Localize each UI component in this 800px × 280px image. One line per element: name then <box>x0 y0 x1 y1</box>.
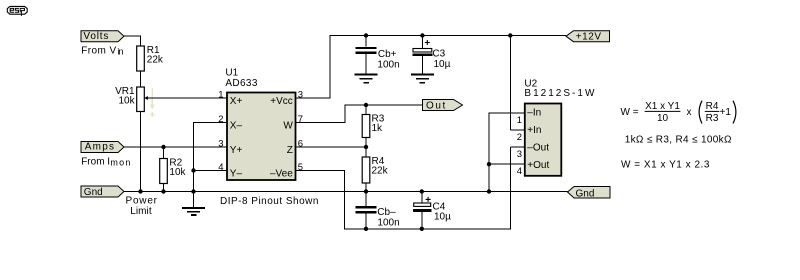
wire U2 -Out stub <box>510 146 525 148</box>
resistor R2 10k <box>160 147 187 192</box>
svg-text:3: 3 <box>218 139 223 150</box>
svg-text:6: 6 <box>298 139 303 150</box>
svg-text:4: 4 <box>218 162 223 173</box>
VR1 adjust ghost arrow <box>150 88 155 117</box>
tag Gnd left <box>81 186 124 198</box>
svg-text:C3: C3 <box>432 49 445 60</box>
svg-text:B1212S-1W: B1212S-1W <box>524 88 595 99</box>
wire +12V rail to U2 +In <box>510 36 525 131</box>
svg-text:Volts: Volts <box>83 31 108 42</box>
ground symbol C3 <box>411 75 434 83</box>
svg-text:–Out: –Out <box>527 143 549 154</box>
svg-text:5: 5 <box>298 162 303 173</box>
svg-text:Limit: Limit <box>130 206 152 217</box>
resistor R4 22k <box>362 147 388 192</box>
svg-text:DIP-8 Pinout Shown: DIP-8 Pinout Shown <box>220 196 318 207</box>
U2 pin numbers <box>517 115 522 177</box>
svg-text:+1: +1 <box>720 107 732 118</box>
label From Imon <box>81 156 130 167</box>
converter U2 B1212S-1W body <box>524 79 595 176</box>
junction gnd row at ground symbol <box>191 189 195 193</box>
svg-text:4: 4 <box>517 166 522 177</box>
wire +Vcc pin to +12V rail <box>296 36 567 99</box>
svg-text:Amps: Amps <box>85 142 114 153</box>
trimpot VR1 10k <box>115 86 148 112</box>
label Power Limit <box>126 196 158 217</box>
junction R2 bottom <box>161 189 165 193</box>
svg-text:+Out: +Out <box>527 160 549 171</box>
junction R2 top <box>161 145 165 149</box>
junction Z R3 R4 <box>364 145 368 149</box>
ESP logo <box>7 6 27 16</box>
svg-text:+Vcc: +Vcc <box>270 96 293 107</box>
svg-text:22k: 22k <box>147 55 164 66</box>
svg-text:+In: +In <box>527 125 541 136</box>
wire U2 -In and +Out to gnd <box>489 113 525 192</box>
junction U2 +Out <box>487 162 491 166</box>
svg-text:10µ: 10µ <box>434 59 451 70</box>
svg-text:AD633: AD633 <box>225 78 257 89</box>
resistor R3 1k <box>362 105 385 147</box>
svg-text:10k: 10k <box>169 167 186 178</box>
svg-text:–Vee: –Vee <box>270 168 293 179</box>
svg-text:3: 3 <box>517 149 522 160</box>
svg-text:x: x <box>687 107 692 118</box>
svg-text:From V: From V <box>81 45 116 56</box>
svg-text:R4: R4 <box>706 101 719 112</box>
svg-text:Y–: Y– <box>230 168 243 179</box>
junction gnd row at R4 <box>364 189 368 193</box>
U1 pin numbers <box>218 90 303 174</box>
junction gnd row at U2 <box>487 189 491 193</box>
junction rail at U2 feed <box>508 33 512 37</box>
tag Gnd right <box>568 187 611 200</box>
svg-text:7: 7 <box>298 114 303 125</box>
tag +12V <box>566 31 610 43</box>
svg-text:in: in <box>117 47 123 57</box>
wire R1 to VR1 <box>140 71 142 87</box>
tag Out <box>423 100 463 112</box>
wire gnd row <box>124 191 568 193</box>
svg-text:X1 x Y1: X1 x Y1 <box>645 101 680 112</box>
capacitor C3 10u polarized <box>412 36 450 75</box>
wire VR1 bottom to gnd row <box>140 112 142 192</box>
svg-text:1: 1 <box>517 115 522 126</box>
svg-text:100n: 100n <box>377 217 399 228</box>
wire U1 X- and Y- to gnd <box>194 123 228 192</box>
svg-text:22k: 22k <box>372 166 389 177</box>
svg-text:W: W <box>283 120 293 131</box>
svg-text:1kΩ ≤ R3, R4 ≤ 100kΩ: 1kΩ ≤ R3, R4 ≤ 100kΩ <box>625 134 732 145</box>
resistor R1 22k <box>137 45 164 71</box>
junction bottom rail at C4 <box>420 227 424 231</box>
label From Vin <box>81 45 123 56</box>
junction gnd row at VR1 line <box>138 189 142 193</box>
junction gnd row at C4 <box>420 189 424 193</box>
svg-text:W =: W = <box>621 107 639 118</box>
equation W formula <box>621 101 736 124</box>
svg-text:Z: Z <box>287 145 293 156</box>
svg-text:1k: 1k <box>372 123 384 134</box>
svg-text:X+: X+ <box>230 96 243 107</box>
op-amp U1 AD633 body <box>225 68 295 180</box>
svg-text:10k: 10k <box>118 96 135 107</box>
wire Volts tag to R1 <box>124 36 141 46</box>
ground symbol main <box>182 192 205 216</box>
svg-text:R3: R3 <box>706 113 719 124</box>
svg-text:Gnd: Gnd <box>576 189 595 200</box>
svg-text:X–: X– <box>230 120 243 131</box>
svg-text:Gnd: Gnd <box>84 187 103 198</box>
capacitor Cb+ 100n <box>356 36 400 75</box>
svg-text:Y+: Y+ <box>230 145 243 156</box>
svg-text:2: 2 <box>517 132 522 143</box>
junction rail at C3 <box>420 33 424 37</box>
svg-text:3: 3 <box>298 90 303 101</box>
wire VR1 wiper to U1 X+ pin 1 <box>148 97 228 99</box>
tag Volts <box>81 31 124 42</box>
junction rail at Cb+ <box>364 33 368 37</box>
ground symbol Cb+ <box>355 75 378 83</box>
svg-text:1: 1 <box>218 90 223 101</box>
capacitor Cb- 100n <box>356 192 400 229</box>
wire Z pin to R3/R4 <box>296 146 367 148</box>
junction W line at R3 <box>364 103 368 107</box>
svg-text:Cb+: Cb+ <box>378 49 397 60</box>
svg-text:2: 2 <box>218 114 223 125</box>
wire -Vee pin to bottom rail <box>296 147 511 229</box>
wire Amps to U1 Y+ pin 3 <box>124 146 227 148</box>
svg-text:–In: –In <box>527 108 541 119</box>
svg-text:C4: C4 <box>433 201 446 212</box>
U1 pin labels <box>230 96 294 180</box>
svg-text:From I: From I <box>81 156 110 167</box>
wire W pin to Out <box>296 105 424 123</box>
svg-text:mon: mon <box>110 158 130 168</box>
svg-text:+12V: +12V <box>576 31 602 42</box>
U2 pin labels <box>527 108 549 172</box>
junction Y- at vertical <box>191 168 195 172</box>
junction bottom rail at Cb- <box>364 227 368 231</box>
svg-text:W = X1 x Y1 x 2.3: W = X1 x Y1 x 2.3 <box>621 160 710 171</box>
svg-text:Cb–: Cb– <box>377 207 396 218</box>
svg-text:10: 10 <box>657 113 669 124</box>
svg-text:100n: 100n <box>377 59 399 70</box>
svg-text:10µ: 10µ <box>434 212 451 223</box>
tag Amps <box>81 142 124 153</box>
svg-text:Out: Out <box>426 100 446 111</box>
capacitor C4 10u polarized <box>413 192 451 229</box>
